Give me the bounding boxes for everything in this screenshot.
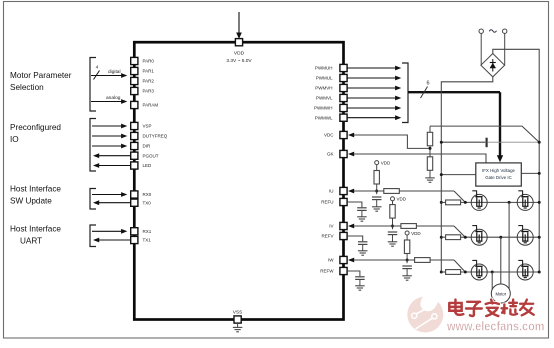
svg-text:GK: GK (327, 152, 334, 157)
svg-text:PAR0: PAR0 (143, 59, 155, 64)
svg-text:analog: analog (106, 95, 121, 101)
svg-text:VSP: VSP (143, 124, 152, 129)
svg-text:LED: LED (143, 163, 153, 168)
svg-text:www.elecfans.com: www.elecfans.com (446, 320, 544, 334)
svg-text:IO: IO (10, 135, 19, 144)
svg-text:IU: IU (329, 189, 334, 194)
svg-text:Motor: Motor (495, 291, 506, 296)
svg-text:VDD: VDD (411, 231, 421, 236)
svg-text:Preconfigured: Preconfigured (10, 123, 61, 132)
svg-text:DUTYFREQ: DUTYFREQ (143, 134, 168, 139)
svg-text:PGOUT: PGOUT (143, 153, 159, 158)
svg-text:DIR: DIR (143, 144, 152, 149)
svg-text:SW Update: SW Update (10, 197, 52, 206)
svg-text:PWMVH: PWMVH (315, 86, 332, 91)
svg-text:Selection: Selection (10, 83, 44, 92)
svg-text:PARAM: PARAM (143, 103, 159, 108)
svg-text:IFX High Voltage: IFX High Voltage (482, 168, 516, 173)
svg-text:TX1: TX1 (143, 238, 152, 243)
svg-text:4: 4 (96, 64, 99, 70)
svg-text:VDD: VDD (381, 160, 391, 165)
svg-text:REFW: REFW (320, 269, 334, 274)
svg-text:3.3V ~ 5.0V: 3.3V ~ 5.0V (226, 58, 252, 64)
svg-text:PAR1: PAR1 (143, 69, 155, 74)
svg-text:RX1: RX1 (143, 229, 152, 234)
svg-text:PWMVL: PWMVL (316, 96, 333, 101)
svg-text:digital: digital (108, 69, 121, 75)
svg-text:Host Interface: Host Interface (10, 225, 61, 234)
svg-text:VSS: VSS (233, 310, 243, 316)
svg-text:RX0: RX0 (143, 192, 152, 197)
svg-text:REFV: REFV (321, 234, 333, 239)
svg-text:VDC: VDC (324, 133, 334, 138)
svg-text:VDD: VDD (234, 51, 245, 57)
svg-text:REFU: REFU (321, 200, 333, 205)
svg-text:Gate Drive IC: Gate Drive IC (485, 175, 512, 180)
svg-text:IV: IV (329, 224, 333, 229)
svg-text:Host Interface: Host Interface (10, 185, 61, 194)
svg-text:6: 6 (426, 81, 429, 87)
svg-text:Motor Parameter: Motor Parameter (10, 71, 72, 80)
svg-text:PAR2: PAR2 (143, 79, 155, 84)
svg-text:IW: IW (328, 258, 334, 263)
svg-text:PWMWL: PWMWL (315, 115, 333, 120)
svg-text:VDD: VDD (397, 197, 407, 202)
svg-text:TX0: TX0 (143, 200, 152, 205)
svg-text:PWMUL: PWMUL (316, 76, 333, 81)
svg-text:PWMUH: PWMUH (315, 66, 333, 71)
svg-text:PWMWH: PWMWH (314, 106, 333, 111)
svg-text:UART: UART (20, 237, 42, 246)
svg-text:PAR3: PAR3 (143, 89, 155, 94)
